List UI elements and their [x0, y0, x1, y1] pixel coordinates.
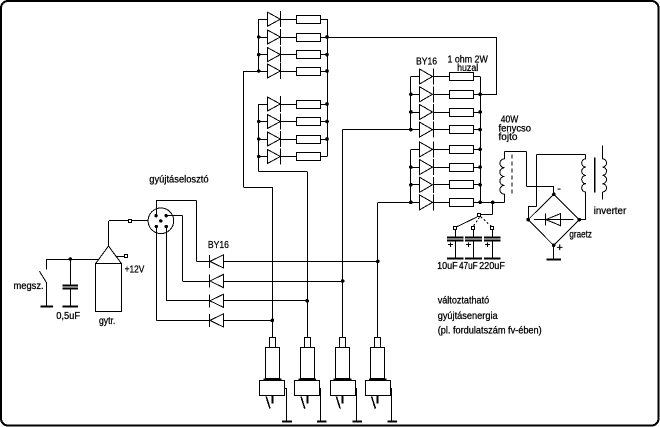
- label fenycso: [499, 123, 532, 134]
- resistor RB3: [297, 136, 328, 144]
- ground capacitor C1: [447, 258, 464, 260]
- wire distributor to diode E2: [166, 216, 209, 282]
- wire selector common: [481, 202, 493, 214]
- distributor contact dots: [154, 214, 167, 228]
- spark plug P1: [260, 338, 285, 396]
- svg-text:220uF: 220uF: [479, 260, 505, 272]
- label 10uF: [437, 260, 458, 272]
- wire bank B to plug2 column: [259, 171, 308, 173]
- wire choke to graetz minus: [504, 152, 554, 195]
- wire distributor to diode E1: [156, 200, 209, 261]
- junction dot selector feed: [491, 201, 495, 205]
- wire plug1 column: [272, 187, 274, 337]
- svg-text:gyújtásenergia: gyújtásenergia: [438, 310, 498, 322]
- ground capacitor C2: [465, 258, 482, 260]
- diode DB4: [259, 149, 297, 165]
- wire group2 to plug4 column: [378, 202, 411, 204]
- spark plug P2: [295, 338, 320, 396]
- wire terminal to distributor: [132, 220, 148, 222]
- wire right bank output bus: [480, 77, 482, 203]
- junction dots right output bus: [478, 93, 482, 205]
- wire right bank group2 anode bus: [410, 149, 412, 202]
- diode DD4 BY16: [411, 194, 449, 210]
- wire plug2 column: [307, 172, 309, 338]
- wire bank A to plug1 column: [244, 71, 273, 188]
- resistor RA4: [297, 68, 328, 76]
- label gyujtaselszto: [149, 174, 208, 186]
- svg-text:változtatható: változtatható: [438, 294, 490, 306]
- resistor RD1 1ohm2W: [450, 146, 481, 154]
- label fojto: [499, 132, 519, 143]
- wire distributor to diode E3: [166, 227, 209, 301]
- label minus: [557, 183, 561, 195]
- resistor RC3 1ohm2W: [450, 109, 481, 117]
- diode DD2 BY16: [411, 159, 449, 175]
- wire +12V tap: [116, 256, 125, 258]
- resistor RD3 1ohm2W: [450, 181, 481, 189]
- spark plug P3: [331, 338, 356, 396]
- capacitor C3 polarity +: [485, 243, 490, 248]
- wire plug4 column: [377, 202, 379, 337]
- label BY16 right bank: [416, 56, 437, 68]
- spark plug P1 ground: [282, 388, 292, 421]
- svg-text:huzal: huzal: [457, 62, 478, 74]
- capacitor C1 10uF: [447, 230, 464, 258]
- diode DB1: [259, 96, 297, 112]
- svg-text:BY16: BY16: [208, 239, 229, 251]
- diode DE3 BY16: [210, 294, 224, 307]
- diode DD1 BY16: [411, 141, 449, 157]
- resistor RD2 1ohm2W: [450, 164, 481, 172]
- label megsz: [14, 280, 44, 292]
- graetz corner dots: [526, 193, 581, 248]
- resistor RB4: [297, 153, 328, 161]
- ground graetz plus: [547, 245, 562, 259]
- resistor RB2: [297, 118, 328, 126]
- junction dots bank A anode bus: [257, 35, 261, 73]
- label huzal: [457, 62, 478, 74]
- diode DE1 BY16: [210, 255, 224, 268]
- spark plug P4 ground: [388, 388, 398, 421]
- graetz inner diode: [534, 214, 573, 226]
- label 0,5uF: [56, 310, 80, 322]
- diode DC2 BY16: [411, 86, 449, 102]
- resistor RA1: [297, 16, 328, 24]
- wire diode E1 to plug4 column: [223, 260, 379, 264]
- svg-text:-: -: [557, 183, 561, 195]
- spark plug P4: [366, 338, 391, 396]
- label BY16 left: [208, 239, 229, 251]
- svg-text:graetz: graetz: [569, 229, 592, 241]
- diode DB3: [259, 131, 297, 147]
- inductor L1 fojto: [500, 152, 505, 203]
- svg-text:inverter: inverter: [594, 205, 627, 217]
- graetz bridge diamond: [528, 194, 579, 245]
- wire diode E4 to plug1 column: [223, 319, 274, 323]
- svg-text:10uF: 10uF: [437, 260, 458, 272]
- wire bus to choke: [480, 202, 504, 204]
- wire primary to graetz AC2: [579, 219, 586, 221]
- wire bank B anode bus: [258, 104, 260, 172]
- resistor RD4 1ohm2W: [450, 199, 481, 207]
- resistor RB1: [297, 101, 328, 109]
- junction dot capacitor tap: [69, 257, 73, 261]
- diode DB2: [259, 114, 297, 130]
- svg-text:(pl. fordulatszám fv-ében): (pl. fordulatszám fv-ében): [438, 325, 542, 337]
- wire diode E2 to plug3 column: [223, 279, 344, 283]
- junction dots bank B anode bus: [257, 120, 261, 159]
- label 1 ohm 2W: [448, 53, 488, 65]
- terminal +12V: [125, 255, 128, 258]
- terminal rotor: [129, 220, 132, 223]
- junction dots group1 anode bus: [409, 93, 413, 132]
- wire top banks output bus: [327, 19, 329, 156]
- diode DC4 BY16: [411, 122, 449, 138]
- label +12V: [125, 264, 145, 276]
- label 40W: [501, 115, 519, 126]
- label 220uF: [479, 260, 505, 272]
- transformer T1 primary: [582, 154, 586, 219]
- spark plug P1 electrode: [266, 396, 272, 409]
- label gytr: [99, 315, 115, 327]
- selector blade: [456, 217, 477, 227]
- label pl fordulatszam: [438, 325, 542, 337]
- wire top bus to right bank: [327, 37, 497, 95]
- capacitor C3 220uF: [484, 230, 501, 258]
- resistor RC4 1ohm2W: [450, 126, 481, 134]
- capacitor C1 polarity +: [448, 243, 453, 248]
- junction dots group2 anode bus: [409, 165, 413, 204]
- svg-text:47uF: 47uF: [459, 260, 478, 272]
- diode DE2 BY16: [210, 275, 224, 288]
- spark plug P4 electrode: [372, 396, 378, 409]
- wire right bank group1 anode bus: [410, 77, 412, 130]
- diode DD3 BY16: [411, 177, 449, 193]
- wire group1 to plug3 column: [343, 129, 411, 131]
- wire transformer to graetz AC1: [528, 154, 585, 219]
- svg-text:megsz.: megsz.: [14, 280, 44, 292]
- distributor circle gyujtaselszto: [148, 208, 174, 234]
- diode DE4 BY16: [210, 314, 224, 327]
- diode DA1: [259, 11, 297, 27]
- junction dots top output bus: [325, 35, 329, 141]
- diode DA4: [259, 63, 297, 79]
- svg-text:+: +: [557, 242, 563, 254]
- selector dashed blades: [473, 217, 491, 227]
- svg-text:BY16: BY16: [416, 56, 437, 68]
- resistor RC2 1ohm2W: [450, 91, 481, 99]
- label valtoztathato: [438, 294, 490, 306]
- capacitor C2 polarity +: [466, 243, 471, 248]
- label inverter: [594, 205, 627, 217]
- transformer T1 core: [594, 158, 596, 193]
- wire coil to rotor: [109, 221, 129, 247]
- capacitor 0,5uF: [62, 259, 78, 306]
- svg-text:0,5uF: 0,5uF: [56, 310, 80, 322]
- inductor L1 core: [511, 155, 513, 196]
- label 47uF: [459, 260, 478, 272]
- label plus: [557, 242, 563, 254]
- selector common contact: [478, 214, 481, 217]
- resistor RC1 1ohm2W: [450, 73, 481, 81]
- transformer T1 secondary: [602, 146, 606, 200]
- ground 0,5uF: [62, 306, 78, 308]
- svg-text:gyújtáselosztó: gyújtáselosztó: [149, 174, 208, 186]
- diode DC1 BY16: [411, 69, 449, 85]
- diode DA2: [259, 29, 297, 45]
- ground capacitor C3: [484, 258, 501, 260]
- wire plug3 column: [342, 130, 344, 338]
- diode DA3: [259, 47, 297, 63]
- diode DC3 BY16: [411, 104, 449, 120]
- selector contacts: [454, 227, 494, 230]
- wire diode E3 to plug2 column: [223, 299, 309, 303]
- resistor RA2: [297, 34, 328, 42]
- ignition coil gytr: [96, 246, 122, 312]
- svg-text:fojto: fojto: [499, 132, 519, 143]
- wire switch to coil: [47, 259, 99, 261]
- spark plug P2 ground: [317, 388, 327, 421]
- switch megsz: [40, 259, 54, 307]
- wire bank A anode bus: [258, 19, 260, 71]
- svg-text:+12V: +12V: [125, 264, 145, 276]
- spark plug P3 electrode: [336, 396, 342, 409]
- label gyujtasenergia: [438, 310, 498, 322]
- svg-text:gytr.: gytr.: [99, 315, 115, 327]
- spark plug P3 ground: [352, 388, 362, 421]
- wire distributor to diode E4: [156, 227, 209, 321]
- resistor RA3: [297, 51, 328, 59]
- spark plug P2 electrode: [301, 396, 308, 409]
- capacitor C2 47uF: [465, 230, 482, 258]
- label graetz: [569, 229, 592, 241]
